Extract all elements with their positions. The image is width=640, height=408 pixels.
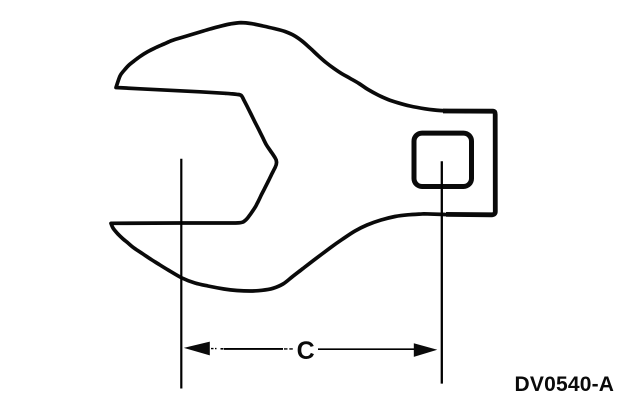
- svg-text:DV0540-A: DV0540-A: [515, 373, 615, 396]
- svg-text:C: C: [297, 337, 315, 365]
